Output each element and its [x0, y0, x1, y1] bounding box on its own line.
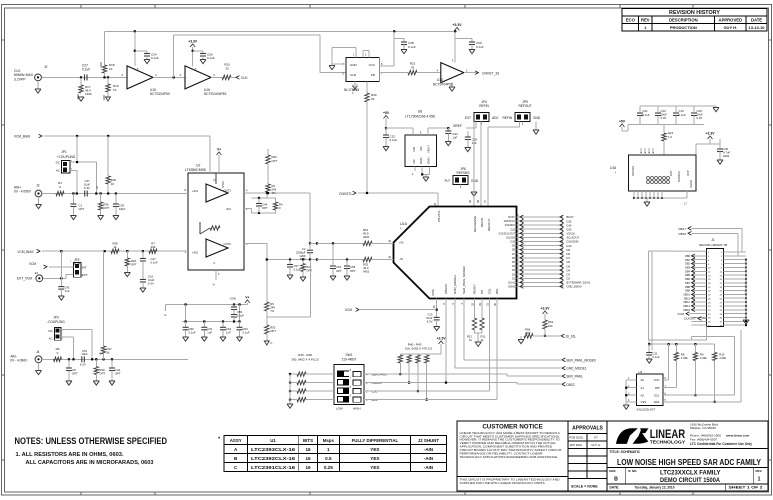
svg-text:V-: V-: [270, 341, 273, 345]
svg-text:R8: R8: [681, 353, 685, 357]
svg-text:CLR: CLR: [350, 73, 357, 77]
svg-text:16: 16: [305, 465, 311, 470]
svg-text:R24: R24: [668, 131, 674, 135]
svg-text:OPT: OPT: [103, 206, 109, 210]
svg-text:DATE:: DATE:: [610, 486, 620, 490]
svg-text:C50: C50: [476, 41, 482, 45]
svg-text:VCM: VCM: [677, 312, 684, 316]
svg-text:V-: V-: [213, 283, 216, 287]
svg-text:3.2VPP: 3.2VPP: [14, 77, 26, 81]
svg-text:7%: 7%: [270, 309, 275, 313]
svg-text:J3: J3: [36, 184, 40, 188]
svg-text:REFIN: REFIN: [480, 218, 484, 227]
svg-text:U13: U13: [437, 78, 443, 82]
svg-text:0.1uF: 0.1uF: [390, 138, 398, 142]
svg-text:U1A: U1A: [400, 222, 408, 226]
svg-text:1uF: 1uF: [65, 289, 70, 293]
svg-text:KT: KT: [594, 436, 598, 440]
svg-text:1uF: 1uF: [226, 330, 231, 334]
svg-text:YES: YES: [370, 465, 379, 470]
svg-text:ASSY: ASSY: [230, 438, 242, 443]
svg-text:FLT: FLT: [445, 179, 450, 183]
svg-text:DB16: DB16: [678, 232, 686, 236]
svg-text:R50: R50: [272, 155, 278, 159]
svg-text:C21: C21: [643, 109, 649, 113]
svg-text:JP1: JP1: [61, 150, 67, 154]
svg-text:RESET: RESET: [473, 284, 477, 294]
svg-text:1K: 1K: [109, 67, 113, 71]
svg-text:C27: C27: [82, 64, 88, 68]
svg-text:33: 33: [371, 97, 375, 101]
svg-text:Msps: Msps: [323, 438, 335, 443]
svg-text:ADC: ADC: [492, 116, 499, 120]
svg-text:FULLY DIFFERENTIAL: FULLY DIFFERENTIAL: [352, 438, 399, 443]
svg-text:PRODUCTION: PRODUCTION: [670, 25, 697, 30]
svg-text:DEMO CIRCUIT 1500A: DEMO CIRCUIT 1500A: [660, 477, 720, 484]
svg-text:R22: R22: [410, 62, 416, 66]
svg-text:CUSTOMER NOTICE: CUSTOMER NOTICE: [482, 424, 542, 431]
svg-text:VCM: VCM: [29, 262, 36, 266]
svg-text:33: 33: [225, 66, 229, 70]
svg-text:SER_PARL: SER_PARL: [566, 375, 583, 379]
svg-text:-AIN: -AIN: [424, 447, 434, 452]
svg-text:16_16L: 16_16L: [565, 335, 576, 339]
svg-text:ECO: ECO: [626, 18, 636, 23]
svg-text:NC: NC: [419, 146, 423, 150]
svg-text:WP: WP: [655, 386, 660, 390]
svg-text:PCB DSGL: PCB DSGL: [570, 436, 585, 440]
svg-text:D11/SDI: D11/SDI: [506, 236, 515, 239]
svg-text:+5V: +5V: [383, 111, 390, 115]
svg-text:0402: 0402: [723, 154, 730, 158]
svg-text:U16: U16: [204, 88, 210, 92]
svg-text:U18: U18: [610, 166, 616, 170]
svg-text:REVISION HISTORY: REVISION HISTORY: [669, 10, 720, 16]
svg-text:www.linear.com: www.linear.com: [725, 434, 750, 438]
svg-text:JP4: JP4: [481, 100, 487, 104]
svg-text:-IN: -IN: [399, 257, 403, 261]
svg-text:D10: D10: [511, 241, 516, 244]
svg-text:GND_MODE1: GND_MODE1: [566, 367, 586, 371]
svg-text:APP ENG.: APP ENG.: [570, 443, 583, 447]
svg-text:499: 499: [151, 245, 156, 249]
svg-text:Tuesday, January 12, 2010: Tuesday, January 12, 2010: [635, 486, 675, 490]
svg-text:VD: VD: [97, 186, 99, 189]
svg-text:C38: C38: [408, 41, 414, 45]
svg-text:0.1uF: 0.1uF: [151, 56, 159, 60]
svg-text:0V - 4.096V: 0V - 4.096V: [10, 359, 28, 363]
svg-text:+5V: +5V: [619, 120, 626, 124]
svg-text:0.1uF: 0.1uF: [243, 330, 250, 334]
svg-text:13-13-10: 13-13-10: [748, 25, 765, 30]
svg-text:HD2X20-100SMT-TB: HD2X20-100SMT-TB: [699, 243, 727, 247]
svg-text:0.1uF: 0.1uF: [189, 330, 196, 334]
svg-text:VCC: VCC: [654, 378, 660, 382]
svg-text:4.99k: 4.99k: [719, 356, 726, 360]
svg-text:R54: R54: [548, 320, 554, 324]
svg-text:REFIN: REFIN: [479, 104, 489, 108]
svg-text:VCC: VCC: [369, 63, 376, 67]
svg-text:0.1uF: 0.1uF: [653, 355, 660, 359]
svg-text:OPT: OPT: [262, 206, 268, 210]
svg-text:+IN: +IN: [399, 241, 403, 245]
svg-text:INT: INT: [82, 265, 87, 269]
svg-text:+3.3V: +3.3V: [706, 132, 716, 136]
svg-text:VCM: VCM: [431, 289, 435, 296]
svg-text:NOTES: UNLESS OTHERWISE SPECIF: NOTES: UNLESS OTHERWISE SPECIFIED: [15, 436, 168, 446]
svg-text:LT6350CMS8: LT6350CMS8: [185, 168, 206, 172]
svg-text:+3.3V: +3.3V: [541, 307, 551, 311]
svg-text:TECHNOLOGY: TECHNOLOGY: [650, 439, 686, 445]
svg-text:DB17: DB17: [678, 227, 686, 231]
svg-text:OPT: OPT: [270, 329, 276, 333]
svg-text:J2: J2: [44, 65, 48, 69]
svg-text:OPT: OPT: [306, 269, 312, 273]
svg-text:VSS: VSS: [641, 400, 647, 404]
svg-text:BITS: BITS: [303, 438, 313, 443]
svg-text:YES: YES: [370, 456, 379, 461]
svg-text:1. ALL RESISTORS ARE IN OHMS,: 1. ALL RESISTORS ARE IN OHMS, 0603.: [16, 452, 124, 458]
svg-text:R10: R10: [719, 353, 725, 357]
svg-text:0.5: 0.5: [325, 456, 332, 461]
svg-text:6.3V: 6.3V: [697, 116, 703, 120]
svg-text:-AIN: -AIN: [424, 456, 434, 461]
svg-text:GUY H.: GUY H.: [591, 443, 601, 447]
svg-text:LTC Confidential-For Customer: LTC Confidential-For Customer Use Only: [690, 442, 752, 446]
svg-text:GND: GND: [533, 116, 541, 120]
svg-text:VCM: VCM: [345, 308, 352, 312]
svg-text:1.0: 1.0: [668, 135, 672, 139]
svg-text:OPT: OPT: [79, 207, 85, 211]
svg-text:10k: 10k: [548, 324, 553, 328]
svg-text:AIN+: AIN+: [14, 186, 21, 190]
svg-text:CLK: CLK: [14, 69, 21, 73]
svg-text:1uF: 1uF: [207, 330, 212, 334]
svg-text:OPT: OPT: [99, 372, 105, 376]
svg-text:OB2C: OB2C: [566, 383, 575, 387]
svg-text:4.99k: 4.99k: [681, 356, 688, 360]
svg-text:LTC2391CLX-16: LTC2391CLX-16: [251, 465, 296, 470]
svg-text:6.3V: 6.3V: [661, 116, 667, 120]
svg-text:CLK: CLK: [241, 76, 248, 80]
svg-text:0V - 4.096V: 0V - 4.096V: [14, 190, 32, 194]
svg-text:R30: R30: [111, 178, 117, 182]
svg-text:VIN: VIN: [412, 147, 416, 152]
svg-text:CNVSTL: CNVSTL: [339, 192, 352, 196]
svg-text:JP6: JP6: [460, 167, 466, 171]
svg-text:SER_PARL_MODE0: SER_PARL_MODE0: [566, 358, 596, 362]
svg-text:JP5: JP5: [522, 100, 528, 104]
svg-text:E1: E1: [35, 271, 39, 275]
svg-text:219-4MST: 219-4MST: [342, 358, 357, 362]
svg-text:+IN1: +IN1: [192, 189, 198, 193]
svg-text:B: B: [614, 477, 618, 483]
svg-text:6.3V: 6.3V: [80, 363, 86, 367]
svg-text:R40 - R43: R40 - R43: [408, 342, 422, 346]
svg-text:A0: A0: [641, 378, 645, 382]
svg-text:A2: A2: [641, 393, 645, 397]
svg-text:ALL CAPACITORS ARE IN MICROFAR: ALL CAPACITORS ARE IN MICROFARADS, 0603: [26, 460, 154, 466]
svg-text:C54: C54: [336, 265, 342, 269]
svg-text:0.1uF: 0.1uF: [679, 113, 686, 117]
svg-text:D15/SCLK: D15/SCLK: [504, 220, 516, 223]
svg-text:SCALE = NONE: SCALE = NONE: [571, 485, 598, 489]
svg-text:+3.3V: +3.3V: [188, 40, 198, 44]
svg-text:0402: 0402: [363, 235, 370, 239]
svg-text:OPT: OPT: [115, 372, 121, 376]
svg-text:10uF: 10uF: [81, 352, 88, 356]
svg-text:GUY H.: GUY H.: [723, 25, 737, 30]
svg-text:D12/SCLKOUT: D12/SCLKOUT: [499, 232, 516, 235]
svg-text:R9: R9: [700, 353, 704, 357]
svg-text:GND: GND: [350, 63, 358, 67]
svg-text:REFOUT: REFOUT: [487, 219, 491, 232]
svg-text:U2: U2: [196, 164, 200, 168]
svg-text:NC7SVU04P5X: NC7SVU04P5X: [204, 92, 227, 96]
svg-text:SDA: SDA: [654, 400, 660, 404]
svg-text:1uF: 1uF: [452, 135, 457, 139]
svg-text:REFIN: REFIN: [502, 116, 512, 120]
svg-text:D0/A0: D0/A0: [508, 286, 515, 289]
svg-text:TECHNOLOGY APPLICATIONS ENGINE: TECHNOLOGY APPLICATIONS ENGINEERING FOR …: [460, 455, 559, 459]
svg-text:+COUPLING: +COUPLING: [57, 155, 76, 159]
svg-text:U4: U4: [639, 370, 643, 374]
svg-text:LTC2392CLX-16: LTC2392CLX-16: [251, 456, 296, 461]
svg-text:NC7ST04P5X: NC7ST04P5X: [433, 82, 454, 86]
svg-text:VD: VD: [100, 352, 102, 355]
svg-text:EXT: EXT: [82, 273, 88, 277]
svg-text:Fax: (408)434-0507: Fax: (408)434-0507: [690, 437, 717, 441]
svg-text:AIN-: AIN-: [10, 354, 16, 358]
svg-text:+3.3V: +3.3V: [453, 23, 463, 27]
svg-text:LTC23XXCLX FAMILY: LTC23XXCLX FAMILY: [660, 470, 721, 477]
svg-text:C55: C55: [350, 265, 356, 269]
svg-text:D13: D13: [511, 228, 516, 231]
svg-text:0.1uF: 0.1uF: [408, 45, 416, 49]
svg-text:V+: V+: [245, 296, 249, 300]
svg-text:CNVSTL: CNVSTL: [437, 210, 441, 222]
svg-text:GND: GND: [419, 158, 423, 164]
svg-text:24LC025-I/ST: 24LC025-I/ST: [637, 408, 656, 412]
svg-text:1K: 1K: [111, 182, 115, 186]
svg-text:0.1uF: 0.1uF: [476, 45, 484, 49]
svg-text:4.99k: 4.99k: [700, 356, 707, 360]
svg-text:18pF: 18pF: [119, 207, 126, 211]
svg-text:JP3: JP3: [53, 315, 59, 319]
svg-text:U1: U1: [270, 438, 276, 443]
svg-text:D14/SDO: D14/SDO: [505, 224, 515, 227]
svg-text:-AIN: -AIN: [424, 465, 434, 470]
svg-text:IC NO.: IC NO.: [628, 469, 637, 473]
svg-text:0.1uF: 0.1uF: [82, 68, 90, 72]
svg-text:C58: C58: [230, 297, 236, 301]
svg-text:DATE: DATE: [751, 18, 762, 23]
svg-text:REFSENSE: REFSENSE: [473, 216, 477, 232]
svg-text:U6: U6: [418, 110, 422, 114]
svg-text:R6: R6: [56, 347, 60, 351]
svg-text:R20: R20: [224, 63, 230, 67]
svg-text:0.1uF: 0.1uF: [207, 56, 215, 60]
svg-text:1206: 1206: [85, 92, 92, 96]
svg-text:LOW NOISE HIGH SPEED SAR ADC F: LOW NOISE HIGH SPEED SAR ADC FAMILY: [617, 458, 762, 467]
svg-text:33: 33: [411, 65, 415, 69]
svg-text:+IN2: +IN2: [192, 251, 198, 255]
svg-text:APPROVALS: APPROVALS: [572, 426, 603, 432]
svg-text:OB/2CL: OB/2CL: [444, 283, 448, 294]
svg-text:VOUT: VOUT: [427, 145, 431, 153]
svg-text:16: 16: [305, 456, 311, 461]
svg-text:SHEET 1 OF 2: SHEET 1 OF 2: [729, 486, 763, 490]
svg-text:R18: R18: [109, 63, 115, 67]
svg-text:SIZE: SIZE: [609, 469, 616, 473]
svg-text:LINEAR: LINEAR: [650, 427, 686, 441]
svg-text:J1: J1: [711, 238, 715, 242]
svg-text:GND: GND: [427, 158, 431, 164]
svg-text:REV.: REV.: [756, 469, 763, 473]
svg-text:Milpitas, CA 95035: Milpitas, CA 95035: [690, 426, 716, 430]
svg-text:1K: 1K: [113, 88, 117, 92]
svg-text:OPT: OPT: [72, 372, 78, 376]
svg-text:SUPPLIED FOR USE WITH LINEAR T: SUPPLIED FOR USE WITH LINEAR TECHNOLOGY …: [460, 481, 546, 485]
svg-text:0.1uF: 0.1uF: [643, 113, 650, 117]
svg-text:LOW: LOW: [336, 407, 343, 411]
svg-text:REFOUT: REFOUT: [518, 104, 531, 108]
svg-text:REV: REV: [641, 18, 650, 23]
svg-text:TITLE: SCHEMATIC: TITLE: SCHEMATIC: [610, 450, 641, 454]
svg-text:A1: A1: [641, 386, 645, 390]
svg-text:NL17SZ74: NL17SZ74: [344, 88, 359, 92]
svg-text:LT1790ACS6-4.096: LT1790ACS6-4.096: [405, 115, 435, 119]
svg-text:VREF: VREF: [453, 124, 462, 128]
svg-text:0.1uF: 0.1uF: [151, 260, 158, 264]
svg-text:0.1uF: 0.1uF: [237, 313, 244, 317]
svg-text:VCM_BIAS: VCM_BIAS: [14, 135, 30, 139]
svg-text:CSL: CSL: [488, 288, 492, 294]
svg-text:300, 0402 X 4 PLCS: 300, 0402 X 4 PLCS: [291, 358, 318, 362]
svg-text:EXT: EXT: [465, 116, 471, 120]
svg-text:0.25: 0.25: [324, 465, 333, 470]
svg-text:80MHz MAX: 80MHz MAX: [14, 73, 34, 77]
svg-text:V-: V-: [164, 313, 167, 317]
svg-text:APPROVED: APPROVED: [719, 18, 743, 23]
svg-text:R49: R49: [371, 93, 377, 97]
svg-text:R1: R1: [58, 181, 62, 185]
svg-text:1: 1: [758, 477, 761, 483]
svg-text:16: 16: [305, 447, 311, 452]
svg-text:+3.3V: +3.3V: [437, 337, 447, 341]
svg-text:SER_PARL_MODE0: SER_PARL_MODE0: [462, 266, 466, 294]
svg-text:CLKOUT: CLKOUT: [684, 317, 696, 321]
svg-text:REFSNS: REFSNS: [457, 171, 470, 175]
svg-text:CNVST_33: CNVST_33: [482, 72, 499, 76]
svg-text:6.3V: 6.3V: [148, 282, 154, 286]
svg-text:EXT_VCM: EXT_VCM: [17, 276, 32, 280]
svg-text:R45 - R48: R45 - R48: [298, 353, 312, 357]
svg-text:-COUPLING: -COUPLING: [47, 320, 65, 324]
svg-text:NC: NC: [412, 159, 416, 163]
svg-text:SHDN: SHDN: [222, 181, 225, 188]
svg-text:0402: 0402: [363, 270, 370, 274]
svg-text:U15: U15: [150, 88, 156, 92]
svg-text:J2 SHUNT: J2 SHUNT: [418, 438, 440, 443]
svg-text:SCL: SCL: [654, 393, 660, 397]
svg-text:OUT1: OUT1: [224, 189, 232, 193]
svg-text:NC7SZ04P5X: NC7SZ04P5X: [150, 92, 171, 96]
svg-text:J4: J4: [36, 350, 40, 354]
svg-text:GND_MODE1: GND_MODE1: [453, 275, 457, 294]
svg-text:BUSY: BUSY: [508, 216, 515, 219]
svg-text:LTC2393CLX-16: LTC2393CLX-16: [251, 447, 296, 452]
svg-text:-IN1: -IN1: [226, 207, 232, 211]
svg-text:OPT: OPT: [350, 269, 356, 273]
svg-text:6.3V: 6.3V: [427, 319, 433, 323]
svg-text:V+: V+: [217, 148, 221, 152]
svg-text:VCM_BIAS: VCM_BIAS: [17, 250, 33, 254]
svg-text:1%: 1%: [272, 191, 277, 195]
svg-text:OPT: OPT: [131, 263, 137, 267]
svg-text:GND: GND: [471, 179, 479, 183]
svg-text:OPT: OPT: [336, 269, 342, 273]
svg-text:YES: YES: [370, 447, 379, 452]
svg-text:10k, 0402 X 4 PLCS: 10k, 0402 X 4 PLCS: [405, 346, 432, 350]
svg-text:OPT: OPT: [272, 159, 278, 163]
svg-text:D1/A1: D1/A1: [508, 281, 515, 284]
svg-text:SW1: SW1: [346, 353, 353, 357]
svg-text:R19: R19: [113, 84, 119, 88]
svg-text:HIGH: HIGH: [353, 407, 361, 411]
svg-text:1: 1: [327, 447, 330, 452]
svg-text:6.3V: 6.3V: [84, 186, 90, 190]
svg-text:OUT2: OUT2: [224, 242, 232, 246]
svg-text:RDL: RDL: [495, 288, 499, 294]
svg-text:DESCRIPTION: DESCRIPTION: [669, 18, 698, 23]
svg-text:C19: C19: [679, 109, 685, 113]
